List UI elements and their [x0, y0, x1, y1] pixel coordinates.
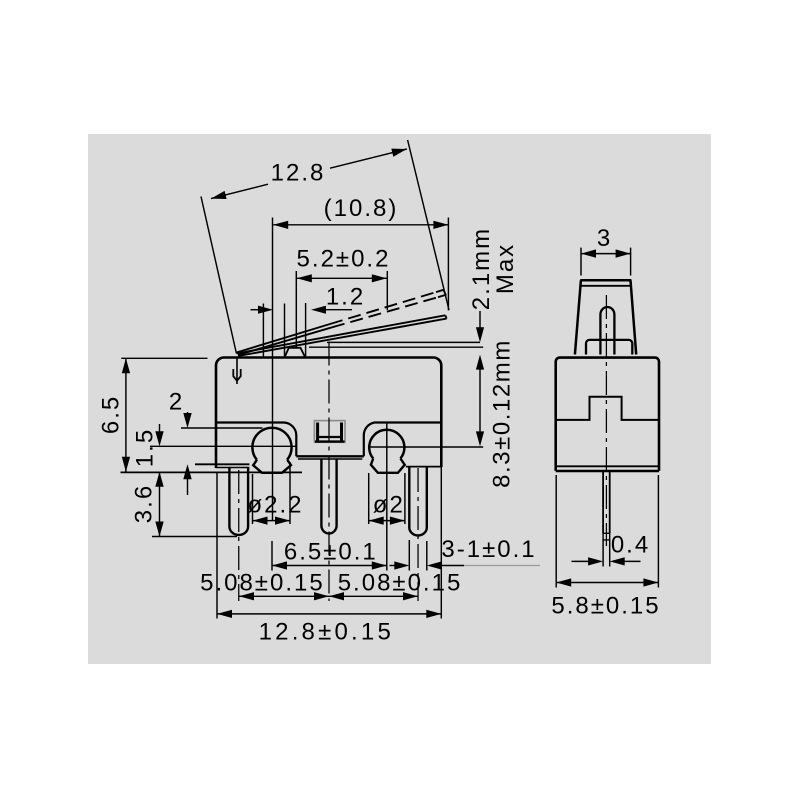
right foot bottom line [406, 466, 442, 468]
dim 3-1±0.1 extensions [408, 540, 410, 571]
dim (10.8) right extension [447, 218, 449, 311]
recess bottom lines [296, 455, 364, 457]
svg-text:1.2: 1.2 [326, 283, 365, 310]
left foot bottom lines [195, 463, 249, 465]
side view plunger slot [600, 307, 614, 355]
dim 6.5±0.1 extensions [271, 541, 273, 571]
hole right horizontal centerline / 8.3 lower reference [368, 446, 483, 448]
dim 2 arrows [187, 412, 189, 415]
dim 1.2 left arrow [251, 309, 262, 311]
dim 12.8 line segments [211, 184, 268, 198]
svg-text:ø2.2: ø2.2 [247, 492, 303, 519]
svg-text:(10.8): (10.8) [324, 195, 399, 222]
dim 6.5 line [125, 358, 127, 472]
lever free position bottom edge solid part [238, 327, 332, 355]
dim ø2 line [369, 520, 405, 522]
free position reference line 2 [309, 346, 483, 348]
dim 6.5±0.1 line [272, 565, 387, 567]
svg-text:1.5: 1.5 [131, 428, 158, 467]
plunger side extension lines [262, 304, 264, 358]
dim 8.3 line (stem between arrows) [479, 368, 481, 434]
side view lever top edges [580, 279, 631, 282]
side view pin [602, 471, 604, 533]
svg-text:3.6: 3.6 [131, 484, 158, 523]
svg-text:6.5: 6.5 [98, 395, 125, 434]
dim 5.08 left line [239, 595, 329, 597]
side view centerline [605, 295, 607, 546]
side view step line [556, 397, 659, 420]
seating plane line [121, 471, 303, 473]
hole left horizontal centerline [150, 445, 297, 447]
dim 5.8±0.15 line [556, 582, 658, 584]
svg-text:3: 3 [597, 225, 612, 252]
window detail black bars [316, 423, 319, 442]
plunger trapezoid [285, 348, 306, 358]
dim 2 extension (circle top tangent) [181, 427, 263, 429]
dim ø2.2 extensions [252, 474, 254, 524]
svg-text:2: 2 [169, 389, 184, 416]
svg-text:12.8: 12.8 [271, 160, 326, 187]
svg-text:12.8±0.15: 12.8±0.15 [259, 619, 394, 646]
lever pressed position top edge [237, 315, 446, 353]
dim 1.2 right arrow [324, 309, 352, 311]
switch body outline (front view) [216, 358, 441, 469]
side view body [556, 358, 659, 471]
lever pressed position bottom edge [238, 319, 447, 356]
dim 5.8±0.15 extensions [555, 475, 557, 588]
left boss under circle [253, 460, 291, 473]
svg-text:Max: Max [492, 243, 519, 294]
hole left vertical centerline / (10.8) extension [272, 218, 274, 522]
svg-text:ø2: ø2 [373, 492, 405, 519]
left pin [229, 468, 248, 536]
lever free position bottom edge dashed part [332, 297, 439, 327]
dim 2.1mm Max arrows [479, 311, 481, 329]
middle pin [321, 459, 336, 534]
svg-text:8.3±0.12mm: 8.3±0.12mm [489, 339, 516, 488]
lever free tip face [444, 290, 447, 296]
svg-text:5.08±0.15: 5.08±0.15 [200, 570, 325, 597]
dim 5.08 right line [329, 595, 418, 597]
gray drawing background [88, 134, 711, 664]
svg-text:5.2±0.2: 5.2±0.2 [297, 246, 391, 273]
dim 6.5 top extension [121, 357, 207, 359]
dim 12.8 right extension [408, 140, 449, 310]
dim ø2.2 line [253, 520, 291, 522]
lever free position top edge dashed part [330, 292, 437, 324]
main vertical centerline [328, 342, 330, 602]
svg-text:5.8±0.15: 5.8±0.15 [551, 593, 660, 620]
lever pressed tip face [445, 315, 446, 318]
hole right vertical centerline [386, 423, 388, 571]
dim 5.2 right extension [386, 271, 388, 310]
dim 3.6 bottom extension [152, 536, 237, 538]
svg-text:2.1mm: 2.1mm [468, 227, 495, 310]
dim 3-1±0.1 arrows [390, 565, 397, 567]
dim 12.8 left extension [201, 197, 236, 354]
dim 5.2 line [297, 277, 387, 279]
dim 3 extensions [580, 248, 582, 276]
dim 0.4 arrows [572, 560, 590, 562]
svg-text:6.5±0.1: 6.5±0.1 [284, 539, 378, 566]
dim 3 line [581, 253, 631, 255]
right pin [409, 467, 427, 536]
dim 12.8±0.15 line [217, 613, 441, 615]
right pin centerline [417, 468, 419, 601]
free position reference line 1 [327, 341, 480, 343]
right boss under circle [371, 459, 405, 473]
side view lever sides [575, 280, 581, 354]
dim ø2 extensions [368, 473, 370, 524]
dim 5.2 left extension [295, 271, 297, 347]
dim (10.8) line [273, 224, 448, 226]
side view bottom lines [556, 470, 659, 473]
side view plunger collar [586, 340, 632, 355]
lever free position top edge solid part [237, 324, 331, 353]
dim 3.6 line [159, 472, 161, 537]
mounting hole right (circle ø2) [369, 430, 404, 459]
svg-text:5.08±0.15: 5.08±0.15 [338, 570, 463, 597]
dim 0.4 extensions [602, 540, 604, 567]
press direction arrow stem [236, 358, 238, 384]
plunger left extension [284, 304, 286, 358]
window detail outer rect (gray) [314, 421, 345, 443]
left pin centerline [238, 470, 240, 601]
svg-text:3-1±0.1: 3-1±0.1 [441, 536, 536, 563]
dim 1.5 arrows [159, 424, 161, 433]
body shelf line left [216, 422, 296, 456]
svg-text:0.4: 0.4 [611, 531, 650, 558]
dim 12.8±0.15 extensions [216, 472, 218, 619]
mounting hole left (circle ø2.2) [252, 428, 291, 460]
body shelf line right [364, 423, 442, 457]
press direction arrow head (hollow) [233, 369, 240, 381]
